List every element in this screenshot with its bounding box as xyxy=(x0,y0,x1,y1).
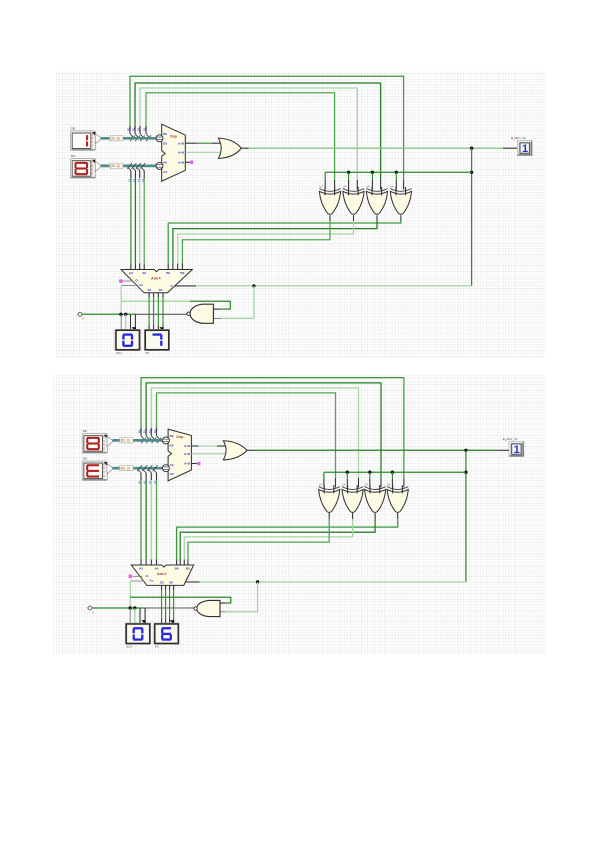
svg-text:A=B: A=B xyxy=(184,452,191,456)
wire bus tap to adder A1 xyxy=(132,163,137,270)
wire A>B comparator to or-gate (p2) xyxy=(191,445,225,447)
svg-text:B1: B1 xyxy=(132,127,136,131)
svg-text:A_: A_ xyxy=(503,437,507,441)
wire A>B comparator to or-gate xyxy=(185,142,196,144)
junction or output xyxy=(470,147,473,150)
or-gate U2b xyxy=(223,441,247,460)
wire xor4 output to adder B0 xyxy=(168,215,401,269)
wire adder S to display (p2) 0 xyxy=(161,585,163,623)
wire carry branch to nand input B xyxy=(214,286,254,319)
junction carry/nand branch (p2) xyxy=(256,580,259,583)
panel 2 grid background xyxy=(53,374,545,655)
wire nand input A to terminal net xyxy=(121,301,230,309)
bus range label [00..3] xyxy=(120,466,133,471)
wire net B3 bus tap to xor input xyxy=(146,93,335,180)
logic probe A_MAY_IG value 1 xyxy=(511,136,532,156)
nand-gate U8 xyxy=(187,304,214,323)
bus B[0..3] xyxy=(101,137,159,140)
junction xor feed tap xyxy=(371,171,374,190)
svg-text:1: 1 xyxy=(514,444,520,456)
svg-text:A3: A3 xyxy=(163,170,167,174)
svg-text:B1: B1 xyxy=(143,429,147,433)
svg-text:[00..3]: [00..3] xyxy=(121,466,130,470)
svg-text:B3: B3 xyxy=(143,127,147,131)
junction xor feed tap xyxy=(347,171,350,190)
wire A=B comparator to or-gate xyxy=(185,151,221,153)
logic probe A_MAY_B value 1 xyxy=(503,437,524,457)
wire xor3 output to adder B1 xyxy=(173,215,377,269)
display input arrow (p2) xyxy=(170,620,174,625)
svg-text:Co: Co xyxy=(150,578,154,582)
svg-text:A0: A0 xyxy=(142,271,146,275)
svg-text:A3: A3 xyxy=(129,271,133,275)
wire terminal net horizontal xyxy=(82,313,136,315)
wire net B0 bus tap to xor input (p2) xyxy=(141,378,404,478)
wire net B2 bus tap to xor input xyxy=(140,88,357,180)
svg-text:A>B: A>B xyxy=(184,444,191,448)
wire display pin drops (p2) xyxy=(140,608,145,623)
svg-text:BDA: BDA xyxy=(127,645,133,649)
junction xor feed (p2) xyxy=(464,471,467,474)
7-segment display BDA value 0 xyxy=(115,329,140,355)
bus tap labels top (p2) xyxy=(138,429,158,433)
comparator U1b xyxy=(162,429,191,481)
input display DA2 value E xyxy=(82,457,112,481)
svg-text:BDA: BDA xyxy=(116,351,122,355)
svg-text:A0: A0 xyxy=(170,463,174,467)
wire adder S1 to display xyxy=(157,293,159,331)
7-segment display BDA2 value 0 xyxy=(125,623,150,649)
svg-text:A>B: A>B xyxy=(178,141,185,145)
wire carry branch to nand input B (p2) xyxy=(220,582,257,612)
wire nand output xyxy=(136,313,187,315)
wire net B0 bus tap to xor input xyxy=(130,76,404,180)
xor-gate U4b xyxy=(342,483,363,512)
svg-text:[00..3]: [00..3] xyxy=(121,439,130,443)
svg-text:B0: B0 xyxy=(166,271,170,275)
wire bus tap to adder A2 xyxy=(136,163,141,270)
wire xor output to adder B (p2) 0 xyxy=(177,513,398,565)
wire carry net vertical (p2) xyxy=(465,450,467,582)
input display DB value 1 xyxy=(71,127,101,151)
svg-text:S3: S3 xyxy=(148,288,152,292)
bus range label [00..3] xyxy=(110,163,123,168)
bus range label [00..3] xyxy=(120,438,133,443)
display input arrow BDA xyxy=(132,327,136,332)
wire xor output to adder B (p2) 2 xyxy=(184,513,352,565)
xor-gate U6 xyxy=(390,185,411,214)
svg-text:B2: B2 xyxy=(137,127,141,131)
junction terminal net 1 (p2) xyxy=(129,606,132,623)
wire net B2 bus tap to xor input (p2) xyxy=(151,388,358,478)
wire bus tap to adder A3 xyxy=(140,163,145,270)
svg-text:B0: B0 xyxy=(175,567,179,571)
wire adder S to display (p2) 2 xyxy=(169,585,171,623)
bus B[0..3] (p2) xyxy=(113,439,165,442)
svg-text:Cmp: Cmp xyxy=(176,435,183,439)
wire A=B comparator to or-gate (p2) xyxy=(191,453,226,455)
svg-text:A3: A3 xyxy=(170,472,174,476)
or-gate U2 xyxy=(218,138,241,158)
svg-text:A1: A1 xyxy=(143,480,147,484)
pin A<B unconnected (p2) xyxy=(191,462,200,466)
svg-text:A1: A1 xyxy=(132,178,136,182)
svg-text:BD: BD xyxy=(146,351,150,355)
svg-text:A3: A3 xyxy=(141,178,145,182)
wire or-gate output to probe (p2) xyxy=(247,449,509,451)
svg-text:A2: A2 xyxy=(136,178,140,182)
svg-text:BD: BD xyxy=(155,645,159,649)
svg-text:Ci: Ci xyxy=(135,279,138,283)
wire bus tap to adder A (p2) 3 xyxy=(153,465,158,565)
junction xor feed tap (p2) xyxy=(391,471,394,488)
xor-gate U5 xyxy=(366,185,387,214)
display input arrow BDA (p2) xyxy=(142,620,146,625)
wire adder S to display (p2) 1 xyxy=(165,585,167,623)
svg-text:1: 1 xyxy=(522,143,528,155)
wire carry net vertical xyxy=(471,148,473,286)
wire Co pin to terminal net (p2) xyxy=(130,581,144,608)
7-segment display BD value 7 xyxy=(144,329,169,355)
svg-text:S0: S0 xyxy=(159,288,163,292)
wire adder S3 to display xyxy=(148,293,150,331)
logic-0 terminal T1 xyxy=(77,312,84,320)
svg-text:DA: DA xyxy=(83,457,87,461)
svg-text:Ci: Ci xyxy=(146,574,149,578)
svg-text:B3: B3 xyxy=(163,142,167,146)
bus A[0..3] xyxy=(101,165,159,168)
svg-text:[00..3]: [00..3] xyxy=(111,164,120,168)
junction carry/nand branch xyxy=(252,284,255,287)
wire adder S2 to display xyxy=(153,293,155,331)
svg-text:A3: A3 xyxy=(153,480,157,484)
junction terminal net 1 xyxy=(119,313,122,331)
svg-text:S0: S0 xyxy=(169,580,173,584)
wire bus tap to adder A (p2) 2 xyxy=(148,465,153,565)
svg-text:A<B: A<B xyxy=(178,160,185,164)
wire xor feed horizontal xyxy=(325,172,471,189)
wire net B1 bus tap to xor input xyxy=(135,83,381,180)
wire nand input A to terminal net (p2) xyxy=(130,597,231,603)
wire adder S to display (p2) 3 xyxy=(173,585,175,623)
xor-gate U3 xyxy=(319,185,340,214)
adder U7 xyxy=(121,270,192,293)
wire xor output to adder B (p2) 3 xyxy=(188,513,329,565)
svg-text:A0: A0 xyxy=(138,480,142,484)
wire xor2 output to adder B2 xyxy=(178,215,354,269)
junction or output (p2) xyxy=(464,449,467,452)
pin Ci unconnected (p2) xyxy=(129,575,143,579)
svg-text:Cmp: Cmp xyxy=(170,135,177,139)
svg-text:B2: B2 xyxy=(148,429,152,433)
svg-text:S3: S3 xyxy=(160,580,164,584)
wire nand output (p2) xyxy=(146,607,195,609)
adder U7b xyxy=(131,565,193,585)
wire terminal net horizontal (p2) xyxy=(92,607,146,609)
svg-text:B0: B0 xyxy=(138,429,142,433)
wire net B3 bus tap to xor input (p2) xyxy=(157,393,336,478)
svg-text:D8: D8 xyxy=(83,429,87,433)
svg-text:B3: B3 xyxy=(153,429,157,433)
svg-text:A0: A0 xyxy=(155,567,159,571)
bus tap labels bottom xyxy=(128,178,145,182)
junction xor feed xyxy=(470,171,473,174)
wire xor feed horizontal (p2) xyxy=(324,472,466,487)
svg-text:Add 4: Add 4 xyxy=(151,277,161,281)
svg-text:A0: A0 xyxy=(128,178,132,182)
junction xor feed tap xyxy=(395,171,398,190)
svg-text:B3: B3 xyxy=(170,444,174,448)
svg-text:B3: B3 xyxy=(186,567,190,571)
pin Ci unconnected xyxy=(119,279,133,283)
wire bus tap to adder A0 xyxy=(127,163,132,270)
svg-text:Co: Co xyxy=(139,283,143,287)
wire display pin drops xyxy=(131,314,136,330)
bus range label [00..3] xyxy=(110,136,123,141)
xor-gate U4 xyxy=(343,185,364,214)
svg-text:A_: A_ xyxy=(511,136,515,140)
nand-gate U8b xyxy=(194,600,220,616)
svg-text:DA: DA xyxy=(71,154,75,158)
xor-gate U6b xyxy=(387,483,408,512)
junction xor feed tap (p2) xyxy=(368,471,371,488)
panel 1 grid background xyxy=(56,71,545,358)
svg-text:A3: A3 xyxy=(139,567,143,571)
wire adder carry to right vertical (p2) xyxy=(185,581,466,583)
svg-text:DB: DB xyxy=(71,127,75,131)
wire xor output to adder B (p2) 1 xyxy=(180,513,375,565)
svg-text:A=B: A=B xyxy=(178,151,185,155)
wire net B1 bus tap to xor input (p2) xyxy=(146,383,381,478)
bus A[0..3] (p2) xyxy=(113,467,165,470)
comparator U1 xyxy=(156,124,185,181)
svg-text:B0: B0 xyxy=(170,434,174,438)
svg-text:B0: B0 xyxy=(163,132,167,136)
wire bus tap to adder A (p2) 0 xyxy=(137,465,142,565)
svg-text:A2: A2 xyxy=(148,480,152,484)
7-segment display BD2 value 6 xyxy=(154,623,179,649)
svg-text:A0: A0 xyxy=(163,161,167,165)
input display DA value 8 xyxy=(71,154,101,178)
logic-0 terminal T2 xyxy=(87,606,94,614)
xor-gate U3b xyxy=(319,483,340,512)
wire Co pin to terminal net xyxy=(121,286,135,315)
wire adder carry to right vertical xyxy=(175,285,472,287)
bus tap labels bottom (p2) xyxy=(138,480,158,484)
bus tap labels top xyxy=(127,127,147,131)
junction terminal net 2 xyxy=(124,313,127,331)
junction terminal net 2 (p2) xyxy=(133,606,136,623)
input display D8 value 8 xyxy=(82,429,112,453)
junction xor feed tap (p2) xyxy=(346,471,349,488)
wire bus tap to adder A (p2) 1 xyxy=(142,465,147,565)
xor-gate U5b xyxy=(365,483,386,512)
svg-text:[00..3]: [00..3] xyxy=(111,137,120,141)
pin A<B unconnected xyxy=(185,161,193,165)
svg-text:A<B: A<B xyxy=(184,462,191,466)
svg-text:B3: B3 xyxy=(180,271,184,275)
svg-text:B0: B0 xyxy=(127,127,131,131)
svg-text:Add 4: Add 4 xyxy=(157,572,167,576)
wire adder S0 to display xyxy=(162,293,164,331)
wire or-gate output to probe xyxy=(241,147,517,149)
wire xor1 output to adder B3 xyxy=(182,215,330,269)
display input arrow xyxy=(159,327,163,332)
